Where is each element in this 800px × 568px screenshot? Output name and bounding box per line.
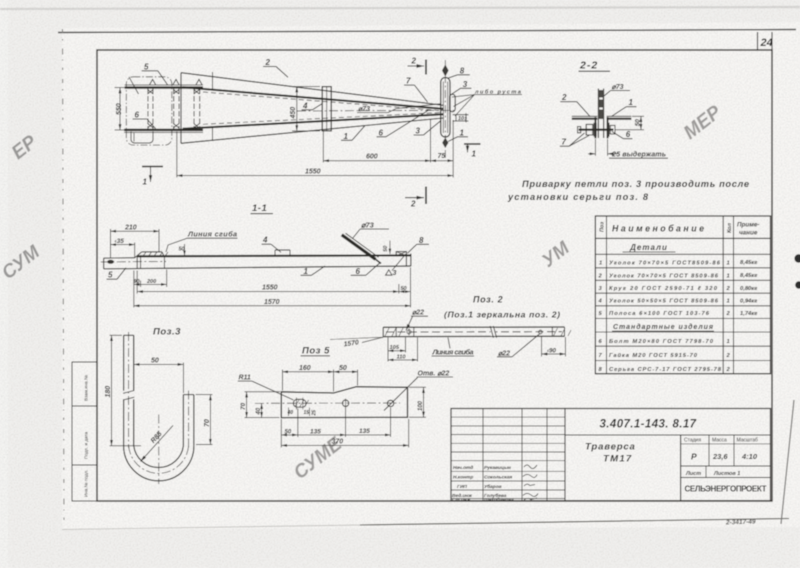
svg-text:1: 1 <box>472 150 477 159</box>
svg-text:Линия сгиба: Линия сгиба <box>432 348 474 357</box>
pole phantom outline <box>126 77 172 145</box>
svg-text:50: 50 <box>383 246 389 252</box>
svg-text:2-3417-49: 2-3417-49 <box>725 518 756 526</box>
label O73 hook <box>353 221 390 239</box>
label O73 with long leader <box>357 104 441 113</box>
scribble note right <box>452 88 522 116</box>
label 1 bottom chord <box>341 126 365 141</box>
svg-text:2: 2 <box>410 200 416 209</box>
R85 leader <box>141 426 174 462</box>
svg-text:Гайка М20 ГОСТ 5915-70: Гайка М20 ГОСТ 5915-70 <box>609 352 698 359</box>
centerline to loop <box>297 109 457 112</box>
shackle (serga poz.8) <box>450 94 456 111</box>
svg-text:50: 50 <box>339 365 347 372</box>
svg-text:Инв.№ подл.: Инв.№ подл. <box>84 470 89 497</box>
svg-text:(Поз.1 зеркальна поз. 2): (Поз.1 зеркальна поз. 2) <box>444 310 560 320</box>
svg-text:1,74кг: 1,74кг <box>740 311 757 317</box>
svg-text:4: 4 <box>302 101 308 110</box>
hook centerlines <box>129 332 189 484</box>
svg-text:3: 3 <box>463 80 468 89</box>
svg-text:1: 1 <box>143 178 148 187</box>
left attachment stamp <box>72 362 97 501</box>
svg-text:Стадия: Стадия <box>684 438 701 444</box>
loop (petlya poz.3) at right end <box>441 60 450 158</box>
svg-text:Уголок 70×70×5 ГОСТ 8509-86: Уголок 70×70×5 ГОСТ 8509-86 <box>609 273 719 279</box>
svg-text:160: 160 <box>299 365 311 372</box>
label 6 <box>612 130 633 139</box>
paper top edge <box>58 30 796 33</box>
R11 label <box>238 375 294 400</box>
drawing frame <box>97 50 772 501</box>
page number box 24 <box>758 32 773 50</box>
label 8 right <box>408 236 430 253</box>
svg-text:40: 40 <box>287 410 294 416</box>
nut bracket right <box>453 113 469 122</box>
left angle 2 <box>572 116 598 138</box>
svg-text:1: 1 <box>727 273 730 279</box>
title 2-2 <box>579 60 611 72</box>
svg-text:Приварку петли поз. 3 произ: Приварку петли поз. 3 производить после <box>522 179 749 189</box>
dim 70 poz3 <box>196 395 213 445</box>
svg-text:⌀22: ⌀22 <box>498 350 510 357</box>
svg-text:110: 110 <box>397 354 407 360</box>
svg-text:установки серьги поз. 8: установки серьги поз. 8 <box>507 192 649 202</box>
svg-text:1: 1 <box>344 132 349 141</box>
label 5 <box>107 268 127 280</box>
dim 25 vyderzhat <box>588 139 617 156</box>
svg-text:3: 3 <box>393 270 397 277</box>
svg-text:Поз. 2: Поз. 2 <box>473 295 503 305</box>
svg-text:75: 75 <box>438 153 446 160</box>
label 6 right <box>377 111 429 138</box>
svg-text:1550: 1550 <box>305 168 321 175</box>
svg-text:Лист: Лист <box>685 471 701 477</box>
svg-text:1: 1 <box>727 339 730 345</box>
dim 40 left inner <box>261 403 263 417</box>
svg-text:50: 50 <box>285 429 292 435</box>
liniya sgiba label <box>166 230 238 252</box>
dims 90 200 <box>134 270 167 308</box>
plate centerline <box>255 402 400 404</box>
svg-text:1: 1 <box>727 260 730 266</box>
Otv O22 label <box>417 370 453 377</box>
svg-text:ТМ17: ТМ17 <box>603 454 632 465</box>
svg-text:R11: R11 <box>239 375 251 382</box>
label 7 <box>404 77 428 102</box>
dim 1570 leader left <box>330 337 383 348</box>
svg-text:0,80кг: 0,80кг <box>740 286 757 292</box>
svg-text:Кол: Кол <box>727 222 733 233</box>
label 8 <box>448 66 470 78</box>
binder holes <box>794 254 800 262</box>
dim 75 <box>431 160 454 162</box>
label 1 <box>612 98 637 116</box>
dims 160 50 top <box>283 370 358 392</box>
hook arcs <box>124 446 194 481</box>
dim 70 left <box>245 392 281 418</box>
svg-text:⌀73: ⌀73 <box>612 84 624 91</box>
dim 1550 <box>177 175 453 177</box>
svg-text:⌀73: ⌀73 <box>358 106 370 113</box>
svg-text:8,45кг: 8,45кг <box>740 260 757 266</box>
weld cross marks <box>148 90 200 129</box>
svg-text:200: 200 <box>146 279 156 285</box>
top mounting angle (edge view, thick) <box>125 84 203 86</box>
svg-text:Рукавицын: Рукавицын <box>484 465 511 471</box>
faint scan watermarks <box>0 102 726 484</box>
chord panel verticals <box>212 72 214 90</box>
svg-text:25: 25 <box>312 410 318 417</box>
label 4 and angle end bump <box>262 236 291 256</box>
hidden leg edges (dashed) <box>203 92 440 111</box>
hole left with O22 label <box>407 329 411 336</box>
svg-text:50: 50 <box>151 357 159 364</box>
poz.2 bar <box>383 327 571 337</box>
label 2 <box>560 93 590 116</box>
title 1-1 <box>251 203 274 214</box>
svg-text:Отв. ⌀22: Отв. ⌀22 <box>418 370 450 377</box>
svg-text:Н.контр: Н.контр <box>453 475 473 481</box>
slot R11 <box>293 398 308 410</box>
svg-text:3.407.1-143. 8.17: 3.407.1-143. 8.17 <box>600 419 697 431</box>
svg-text:‹90: ‹90 <box>547 347 557 354</box>
svg-text:15: 15 <box>304 410 310 416</box>
dim 90 poz2 <box>542 337 566 357</box>
bolt 6 with nuts 7 <box>578 123 616 137</box>
svg-text:7: 7 <box>406 77 411 86</box>
svg-text:Серьга СРС-7-17 ГОСТ 2795-78: Серьга СРС-7-17 ГОСТ 2795-78 <box>609 367 722 373</box>
svg-text:24: 24 <box>760 37 773 49</box>
svg-text:Шеходанова: Шеходанова <box>484 497 514 503</box>
svg-text:70: 70 <box>204 419 211 427</box>
svg-text:50: 50 <box>401 286 407 292</box>
svg-text:Стандартные изделия: Стандартные изделия <box>613 323 713 331</box>
label 4 <box>302 101 323 110</box>
svg-text:135: 135 <box>310 428 321 435</box>
svg-text:Сокольская: Сокольская <box>484 475 512 481</box>
left grid names <box>452 465 514 503</box>
dim 1550 and 50 <box>137 268 410 308</box>
svg-text:Круг 20 ГОСТ 2590-71 ℓ 320: Круг 20 ГОСТ 2590-71 ℓ 320 <box>609 286 718 292</box>
svg-text:Р: Р <box>691 452 697 462</box>
svg-text:⌀22: ⌀22 <box>412 310 424 317</box>
svg-text:100: 100 <box>418 400 424 411</box>
svg-text:550: 550 <box>116 103 123 115</box>
left tab plate 5 <box>101 258 166 269</box>
svg-text:Поз 5: Поз 5 <box>302 346 330 357</box>
label 6 <box>351 262 381 276</box>
svg-text:1570: 1570 <box>264 299 280 306</box>
svg-text:2: 2 <box>561 93 567 102</box>
svg-text:6: 6 <box>135 110 140 119</box>
weld triangles on top chord <box>150 79 156 84</box>
weld symbol triangle 3 <box>386 254 406 277</box>
svg-text:1550: 1550 <box>262 285 278 292</box>
svg-text:40: 40 <box>256 407 262 415</box>
dim 450 <box>292 87 320 131</box>
loop rod vertical <box>598 89 603 139</box>
svg-text:4: 4 <box>262 236 268 245</box>
dim 600 <box>323 160 430 162</box>
svg-text:50: 50 <box>634 119 641 127</box>
dims below 50 135 135 <box>281 408 390 448</box>
label 1 <box>301 266 326 276</box>
svg-text:6: 6 <box>356 267 361 276</box>
main bar angle (side view) <box>135 255 411 268</box>
svg-text:7: 7 <box>562 138 567 147</box>
svg-text:1: 1 <box>460 128 465 137</box>
svg-text:90: 90 <box>134 279 140 285</box>
dim 1570 <box>134 305 411 307</box>
svg-text:Нач.отд: Нач.отд <box>453 465 473 471</box>
svg-text:ГИП: ГИП <box>457 484 467 490</box>
svg-text:210: 210 <box>124 225 137 232</box>
svg-text:0,94кг: 0,94кг <box>740 298 757 304</box>
svg-text:10з: 10з <box>458 116 467 122</box>
svg-text:135: 135 <box>359 428 370 435</box>
dim 370 <box>281 419 408 448</box>
vertical bolt angles (dashed pairs) <box>148 89 200 130</box>
svg-text:105: 105 <box>390 345 400 351</box>
label 3 shackle <box>451 80 472 95</box>
svg-text:Ст.инж: Ст.инж <box>452 497 471 503</box>
section Detali <box>623 243 676 252</box>
svg-text:70: 70 <box>240 402 247 410</box>
center hole <box>342 399 348 409</box>
extension lines bottom dims <box>177 120 453 178</box>
svg-text:1-1: 1-1 <box>252 203 267 214</box>
plate outline <box>281 387 407 418</box>
svg-text:5: 5 <box>144 62 149 71</box>
svg-text:25 выдержать: 25 выдержать <box>611 149 666 158</box>
label 3 right-low <box>414 121 442 136</box>
svg-text:СЕЛЬЭНЕРГОПРОЕКТ: СЕЛЬЭНЕРГОПРОЕКТ <box>685 485 767 494</box>
hook poz.3 side view (thick diagonal) <box>342 233 381 263</box>
svg-text:Поз.3: Поз.3 <box>153 327 181 338</box>
svg-text:Листов 1: Листов 1 <box>713 471 740 477</box>
svg-text:Масштаб: Масштаб <box>737 438 759 444</box>
svg-text:2: 2 <box>265 58 271 67</box>
svg-text:Уголок 50×50×5 ГОСТ 8509-86: Уголок 50×50×5 ГОСТ 8509-86 <box>609 299 719 305</box>
dim 550 left <box>115 88 129 130</box>
dim 210 <box>111 229 160 259</box>
tiny dims at slot <box>289 408 310 417</box>
svg-text:6: 6 <box>379 128 384 137</box>
section mark 2 top <box>408 57 427 75</box>
svg-text:2: 2 <box>411 57 417 66</box>
dim 35 <box>111 243 135 259</box>
paper left edge (rough dashes) <box>63 29 65 528</box>
attach plate with weld X <box>396 252 406 256</box>
stage/mass/scale grid <box>681 435 771 478</box>
dim 50 poz3 <box>134 363 184 394</box>
svg-text:Убаров: Убаров <box>484 483 502 490</box>
svg-text:50: 50 <box>179 247 185 253</box>
svg-text:Детали: Детали <box>629 243 668 252</box>
svg-text:2-2: 2-2 <box>579 60 598 72</box>
svg-text:600: 600 <box>366 154 378 161</box>
bottom chord angle 1 <box>183 114 444 129</box>
svg-text:Полоса 6×100 ГОСТ 103-76: Полоса 6×100 ГОСТ 103-76 <box>609 311 710 317</box>
right hole with leader <box>384 378 418 411</box>
small dim 50 at bend <box>179 244 185 256</box>
section mark 1 left <box>142 167 163 187</box>
dims 105 110 <box>388 338 418 362</box>
svg-text:4:10: 4:10 <box>741 452 758 461</box>
svg-text:1: 1 <box>599 260 602 266</box>
svg-text:Траверса: Траверса <box>585 442 636 453</box>
svg-text:Взам.инв.№: Взам.инв.№ <box>84 375 89 401</box>
small dim 50 right <box>383 241 390 254</box>
svg-text:6: 6 <box>626 130 631 139</box>
hook legs <box>123 335 194 445</box>
bottom mounting angle (edge view, thick) <box>124 129 203 131</box>
label 5 <box>142 62 168 85</box>
leader top-left phantom <box>129 77 139 94</box>
label 2 top chord <box>263 58 288 77</box>
svg-text:23,6: 23,6 <box>712 452 728 461</box>
svg-text:1: 1 <box>727 299 730 305</box>
svg-text:1: 1 <box>304 267 309 276</box>
svg-text:чание: чание <box>739 230 758 237</box>
section mark 1 right <box>464 144 481 159</box>
paper bottom edge <box>62 525 360 530</box>
svg-text:Поз: Поз <box>600 222 606 232</box>
hole right with O22 label <box>539 330 543 334</box>
svg-text:1: 1 <box>629 98 634 107</box>
svg-text:Линия сгиба: Линия сгиба <box>187 230 237 239</box>
paper top shadow line <box>0 7 800 9</box>
inner block verticals <box>140 255 142 268</box>
svg-text:‹35: ‹35 <box>115 238 125 245</box>
label O73 <box>604 84 630 96</box>
label 7 <box>560 133 589 147</box>
section mark 2 upper right <box>405 187 426 209</box>
bar right end cap <box>406 254 411 267</box>
svg-text:8,45кг: 8,45кг <box>740 273 757 279</box>
right angle 1 <box>607 116 632 138</box>
dim 50 right of 2-2 <box>616 116 645 129</box>
svg-text:450: 450 <box>290 107 297 120</box>
cross angle 4 <box>322 87 331 131</box>
liniya sgiba label poz2 <box>432 338 475 357</box>
svg-text:Масса: Масса <box>712 438 727 444</box>
label 1 bottom right <box>448 128 468 141</box>
break lines <box>490 326 496 338</box>
svg-text:5: 5 <box>108 271 113 280</box>
svg-text:⌀73: ⌀73 <box>361 221 375 230</box>
top chord angle 2 <box>181 73 444 106</box>
svg-text:8: 8 <box>460 66 465 75</box>
svg-text:Подп. и дата: Подп. и дата <box>84 431 89 459</box>
bar taper and weld hatch <box>135 252 168 258</box>
label 6 left <box>133 110 156 128</box>
paper right edge <box>781 400 794 524</box>
svg-text:Приме-: Приме- <box>737 222 759 229</box>
svg-text:Болт М20×80 ГОСТ 7798-70: Болт М20×80 ГОСТ 7798-70 <box>609 339 714 345</box>
left end vertical of chords <box>180 73 182 144</box>
signatures squiggles <box>523 465 538 500</box>
saddle clamp bottom <box>131 132 153 144</box>
dim 180 poz3 <box>110 335 142 445</box>
section Standartnye izdeliya <box>612 323 714 331</box>
svg-text:8: 8 <box>419 236 424 245</box>
dim 100 right <box>409 387 426 417</box>
svg-text:3: 3 <box>416 127 421 136</box>
svg-text:180: 180 <box>105 386 112 398</box>
